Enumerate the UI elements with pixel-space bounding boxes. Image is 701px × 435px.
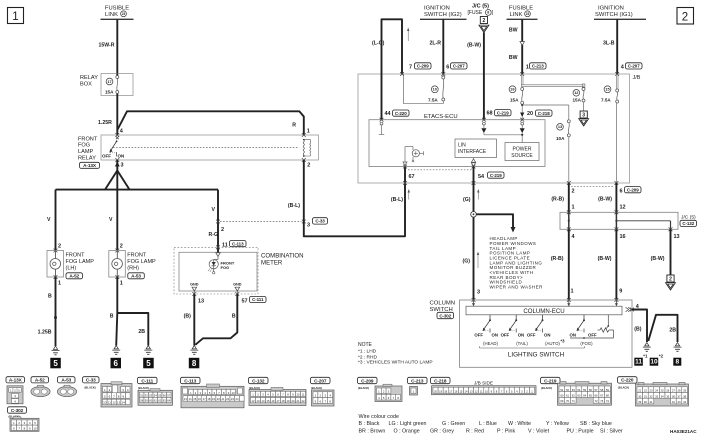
J/B pin 7 C-209 bbox=[400, 63, 431, 76]
J/B pin 4 C-207 bbox=[615, 63, 642, 76]
svg-text:Y : Yellow: Y : Yellow bbox=[546, 421, 569, 427]
svg-text:R : Red: R : Red bbox=[466, 428, 484, 434]
svg-text:32: 32 bbox=[649, 394, 653, 398]
fuse 13 (10A) in J/B bbox=[556, 120, 570, 183]
svg-text:43: 43 bbox=[677, 400, 681, 404]
connector C-33 dashed line bbox=[220, 221, 302, 223]
svg-text:(TAIL): (TAIL) bbox=[516, 341, 528, 346]
front fog indicator LED in meter bbox=[208, 260, 235, 274]
svg-text:51: 51 bbox=[140, 394, 143, 398]
svg-text:23: 23 bbox=[526, 12, 530, 16]
svg-text:RELAY: RELAY bbox=[78, 156, 96, 162]
svg-text:LINK: LINK bbox=[510, 12, 523, 18]
svg-text:C-209: C-209 bbox=[627, 187, 639, 192]
svg-text:GND: GND bbox=[233, 282, 242, 286]
svg-text:73: 73 bbox=[600, 399, 604, 403]
svg-text:22: 22 bbox=[226, 397, 229, 401]
svg-text:6: 6 bbox=[114, 359, 119, 368]
svg-text:10: 10 bbox=[33, 426, 37, 430]
svg-text:WIPER AND WASHER: WIPER AND WASHER bbox=[490, 284, 544, 289]
fuse 26 (15A) in J/B bbox=[509, 86, 524, 104]
svg-text:21: 21 bbox=[221, 397, 224, 401]
lighting switch pole (AUTO) bbox=[527, 315, 565, 346]
svg-text:NOTE: NOTE bbox=[358, 342, 373, 348]
svg-text:37: 37 bbox=[677, 394, 681, 398]
svg-text:18: 18 bbox=[282, 399, 285, 403]
connector detail C-302 bbox=[8, 407, 40, 432]
svg-text:3: 3 bbox=[582, 112, 585, 118]
svg-text:1: 1 bbox=[307, 129, 310, 135]
ignition switch (IG1) feed bbox=[594, 6, 646, 20]
svg-text:6: 6 bbox=[620, 189, 623, 195]
svg-text:22: 22 bbox=[644, 389, 648, 393]
svg-text:C-207: C-207 bbox=[628, 64, 640, 69]
svg-text:A-53: A-53 bbox=[131, 273, 141, 278]
fusible link 23 (right feed) bbox=[507, 6, 538, 20]
connector detail C-207 bbox=[311, 377, 335, 406]
svg-text:70: 70 bbox=[566, 399, 570, 403]
svg-text:V: V bbox=[109, 217, 113, 223]
svg-text:B : Black: B : Black bbox=[359, 421, 380, 427]
ground reference square 8 (right) bbox=[673, 358, 681, 366]
meter GND pin 13 bbox=[190, 282, 204, 304]
wire B-L from relay pin 2 to ETACS-ECU pin 67 bbox=[288, 160, 410, 236]
svg-text:33: 33 bbox=[655, 394, 659, 398]
svg-text:C-209: C-209 bbox=[361, 378, 374, 383]
ground reference square 11 (*1) bbox=[634, 354, 648, 366]
svg-text:9: 9 bbox=[619, 289, 622, 295]
svg-text:C-132: C-132 bbox=[252, 378, 265, 383]
connector detail A-53 bbox=[57, 377, 76, 397]
connector dashed line pins 67-54 bbox=[408, 169, 472, 171]
fog switch sense resistor bbox=[570, 315, 614, 339]
svg-text:57: 57 bbox=[167, 394, 170, 398]
joint connector J/C(5) C-132 box bbox=[560, 212, 697, 229]
svg-text:10: 10 bbox=[485, 389, 488, 393]
svg-text:R: R bbox=[292, 123, 296, 129]
ground reference square 5 bbox=[50, 358, 61, 369]
svg-text:2: 2 bbox=[682, 12, 688, 24]
relay box (fuse 17, 15A) bbox=[80, 74, 133, 96]
wire R-G from C-33 pin 2 to combination meter pin 11 bbox=[208, 232, 246, 248]
svg-text:1.25R: 1.25R bbox=[98, 120, 112, 126]
meter GND pin 57 bbox=[233, 282, 266, 304]
svg-text:SWITCH (IG1): SWITCH (IG1) bbox=[595, 12, 633, 18]
svg-text:C-132: C-132 bbox=[682, 221, 694, 226]
svg-text:C-33: C-33 bbox=[315, 219, 325, 224]
wire (B-W) from J/C(5) to column switch pin 9 bbox=[598, 229, 623, 302]
svg-text:GND: GND bbox=[190, 282, 199, 286]
svg-text:FOG LAMP: FOG LAMP bbox=[66, 259, 95, 265]
wire 15W-R from fusible link 23 to relay box bbox=[99, 19, 118, 73]
wire (B-W) branch to off-page ref 2 bbox=[651, 229, 676, 290]
fuse 17 15A in relay box bbox=[105, 76, 119, 95]
fuse 15 (7.5A) in J/B bbox=[601, 74, 619, 183]
svg-text:18: 18 bbox=[207, 397, 210, 401]
svg-text:SB : Sky blue: SB : Sky blue bbox=[580, 421, 612, 427]
svg-text:15: 15 bbox=[193, 397, 196, 401]
svg-text:(HEAD): (HEAD) bbox=[483, 341, 498, 346]
wire (R-B) from fuse 13 to J/C(5) bbox=[551, 183, 574, 212]
svg-text:FRONT: FRONT bbox=[66, 253, 86, 259]
connector detail A-13X bbox=[6, 377, 25, 404]
svg-text:20: 20 bbox=[434, 389, 437, 393]
svg-text:57: 57 bbox=[595, 388, 599, 392]
svg-text:63: 63 bbox=[163, 399, 166, 403]
svg-text:29: 29 bbox=[683, 389, 687, 393]
svg-text:(G): (G) bbox=[463, 259, 471, 265]
svg-text:(G): (G) bbox=[463, 197, 471, 203]
svg-text:19: 19 bbox=[287, 399, 290, 403]
svg-text:23: 23 bbox=[649, 389, 653, 393]
svg-text:A-13X: A-13X bbox=[83, 163, 97, 168]
ETACS pin 67 bbox=[403, 165, 415, 180]
ground (body earth) for LH lamp bbox=[52, 346, 60, 355]
svg-text:(LH): (LH) bbox=[66, 265, 77, 271]
svg-text:52: 52 bbox=[145, 394, 148, 398]
svg-text:ON: ON bbox=[544, 333, 550, 338]
svg-text:C-219: C-219 bbox=[497, 110, 509, 115]
svg-text:58: 58 bbox=[600, 388, 604, 392]
svg-text:O : Orange: O : Orange bbox=[394, 428, 420, 434]
svg-text:54: 54 bbox=[478, 174, 485, 180]
svg-text:59: 59 bbox=[145, 399, 148, 403]
connector detail C-33 bbox=[83, 377, 133, 407]
svg-text:5: 5 bbox=[53, 359, 58, 368]
svg-text:1: 1 bbox=[58, 281, 61, 287]
svg-text:LINK: LINK bbox=[105, 12, 118, 18]
shared-signal load list bbox=[490, 236, 544, 289]
svg-text:13: 13 bbox=[198, 298, 204, 304]
svg-text:C-113: C-113 bbox=[184, 378, 197, 383]
svg-text:IGNITION: IGNITION bbox=[598, 6, 624, 12]
svg-text:15: 15 bbox=[605, 88, 609, 92]
svg-text:L : Blue: L : Blue bbox=[479, 421, 497, 427]
svg-text:2B: 2B bbox=[138, 329, 145, 335]
lighting switch bracket and label bbox=[480, 346, 585, 358]
J/B pin 1 C-213 bbox=[520, 63, 546, 76]
fusible link 23 (left feed) bbox=[101, 6, 134, 20]
svg-text:14: 14 bbox=[189, 397, 192, 401]
relay pin 1 bbox=[302, 129, 310, 137]
svg-text:12: 12 bbox=[475, 389, 478, 393]
svg-text:GR : Grey: GR : Grey bbox=[430, 428, 454, 434]
svg-text:ON: ON bbox=[518, 333, 524, 338]
svg-text:1.25B: 1.25B bbox=[38, 330, 52, 336]
svg-text:R-G: R-G bbox=[208, 232, 218, 238]
relay coil bbox=[303, 139, 311, 157]
svg-text:2: 2 bbox=[307, 163, 310, 169]
svg-text:12: 12 bbox=[574, 91, 578, 95]
svg-text:65: 65 bbox=[589, 394, 593, 398]
svg-text:39: 39 bbox=[638, 400, 642, 404]
svg-text:72: 72 bbox=[595, 399, 599, 403]
ground (body earth) for column switch bbox=[643, 343, 651, 352]
svg-text:62: 62 bbox=[158, 399, 161, 403]
svg-text:*3: *3 bbox=[561, 339, 566, 344]
svg-text:ON: ON bbox=[570, 333, 576, 338]
svg-text:(B-W): (B-W) bbox=[467, 43, 481, 49]
ETACS pin 54 C-219 bbox=[472, 165, 504, 180]
svg-text:20: 20 bbox=[217, 397, 220, 401]
svg-text:10A: 10A bbox=[556, 136, 565, 141]
svg-text:18: 18 bbox=[444, 389, 447, 393]
svg-text:BW: BW bbox=[509, 55, 518, 61]
svg-text:67: 67 bbox=[409, 174, 415, 180]
svg-text:14: 14 bbox=[122, 401, 126, 405]
svg-text:61: 61 bbox=[566, 394, 570, 398]
svg-text:LAMP: LAMP bbox=[78, 149, 94, 155]
svg-text:56: 56 bbox=[589, 388, 593, 392]
svg-text:C-213: C-213 bbox=[411, 378, 424, 383]
svg-text:63: 63 bbox=[577, 394, 581, 398]
svg-text:2B: 2B bbox=[669, 328, 676, 334]
svg-text:13: 13 bbox=[184, 397, 187, 401]
svg-text:B: B bbox=[110, 314, 114, 320]
ETACS-ECU box bbox=[369, 114, 545, 167]
connector detail C-209 bbox=[358, 377, 403, 401]
svg-text:FUSIBLE: FUSIBLE bbox=[509, 6, 533, 12]
wire 1.25R from fuse 17 to relay pin 4 bbox=[98, 96, 117, 136]
svg-text:2: 2 bbox=[221, 227, 224, 233]
svg-text:(B-W): (B-W) bbox=[598, 197, 612, 203]
svg-text:C-220: C-220 bbox=[395, 111, 407, 116]
svg-text:A-52: A-52 bbox=[35, 378, 45, 383]
svg-text:10: 10 bbox=[297, 393, 300, 397]
svg-text:(FOG): (FOG) bbox=[580, 341, 593, 346]
ground reference square 10 (*2) bbox=[650, 354, 664, 366]
svg-text:FUSIBLE: FUSIBLE bbox=[105, 6, 129, 12]
connector detail C-219 bbox=[541, 377, 612, 405]
svg-text:23: 23 bbox=[231, 397, 234, 401]
svg-text:(BLACK): (BLACK) bbox=[138, 386, 149, 390]
wire B from RH lamp splitting to grounds bbox=[110, 277, 149, 346]
LIN INTERFACE block bbox=[455, 139, 497, 158]
svg-text:44: 44 bbox=[683, 400, 687, 404]
svg-text:11: 11 bbox=[480, 389, 483, 393]
svg-text:A-53: A-53 bbox=[61, 378, 71, 383]
ETACS pin 68 C-219 bbox=[481, 110, 511, 135]
svg-text:17: 17 bbox=[449, 389, 452, 393]
svg-text:51: 51 bbox=[560, 388, 564, 392]
svg-text:55: 55 bbox=[583, 388, 587, 392]
svg-text:2: 2 bbox=[572, 189, 575, 195]
wire (B-W) from fuse 15 to J/C(5) bbox=[598, 183, 625, 212]
svg-text:(BLACK): (BLACK) bbox=[618, 386, 629, 390]
wire 2L-R from IG2 to J/B pin 6 bbox=[429, 19, 443, 74]
svg-text:19: 19 bbox=[212, 397, 215, 401]
svg-text:COLUMN: COLUMN bbox=[430, 301, 456, 307]
off-page ref J/C(5) FUSE 8 bbox=[468, 3, 494, 32]
svg-text:LIGHTING SWITCH: LIGHTING SWITCH bbox=[508, 352, 565, 359]
svg-text:6: 6 bbox=[446, 65, 449, 71]
J/B branch to fuse 13 bbox=[522, 105, 569, 120]
svg-text:52: 52 bbox=[566, 388, 570, 392]
fuse 10 (7.5A) in J/B bbox=[428, 74, 445, 102]
svg-text:69: 69 bbox=[560, 399, 564, 403]
svg-text:53: 53 bbox=[572, 388, 576, 392]
svg-text:10: 10 bbox=[650, 359, 658, 366]
svg-text:C-33: C-33 bbox=[86, 378, 96, 383]
svg-text:(BLACK): (BLACK) bbox=[85, 386, 96, 390]
svg-text:J/C (5): J/C (5) bbox=[472, 3, 489, 9]
svg-text:V: V bbox=[212, 207, 216, 213]
svg-text:(R-B): (R-B) bbox=[551, 256, 564, 262]
svg-text:57: 57 bbox=[242, 298, 248, 304]
connector detail C-113 bbox=[181, 377, 245, 408]
svg-text:7.5A: 7.5A bbox=[428, 97, 438, 102]
svg-text:13: 13 bbox=[674, 234, 680, 240]
sheet reference box 1 bbox=[8, 8, 24, 24]
POWER SOURCE block bbox=[505, 143, 539, 161]
svg-text:HA03E21AC: HA03E21AC bbox=[670, 429, 697, 434]
svg-text:(BLACK): (BLACK) bbox=[358, 386, 369, 390]
svg-text:INTERFACE: INTERFACE bbox=[458, 149, 487, 155]
svg-text:16: 16 bbox=[198, 397, 201, 401]
svg-text:V: V bbox=[47, 217, 51, 223]
fuse 12 (15A) in J/B bbox=[573, 86, 586, 103]
wire (B-W) from J/C(5) to ETACS pin 68 bbox=[467, 33, 484, 120]
svg-text:36: 36 bbox=[672, 394, 676, 398]
svg-text:ETACS-ECU: ETACS-ECU bbox=[424, 114, 458, 120]
J/B pin 6 C-207 bbox=[441, 63, 467, 76]
wire (L-O) from ETACS pin 44 loop to J/B C-209 pin 7 bbox=[372, 19, 409, 119]
svg-text:41: 41 bbox=[649, 400, 653, 404]
svg-text:BR : Brown: BR : Brown bbox=[359, 428, 386, 434]
svg-text:56: 56 bbox=[163, 394, 166, 398]
svg-text:METER: METER bbox=[261, 259, 283, 266]
svg-text:(B-L): (B-L) bbox=[391, 197, 403, 203]
ground (body earth) 2B bbox=[144, 346, 152, 355]
connector detail C-213 bbox=[408, 377, 428, 395]
svg-text:19: 19 bbox=[439, 389, 442, 393]
svg-text:W : White: W : White bbox=[508, 421, 531, 427]
svg-text:BOX: BOX bbox=[80, 82, 92, 88]
wire V fan-out from relay pin 3 bbox=[47, 160, 218, 251]
note block bbox=[358, 342, 433, 365]
svg-text:15A: 15A bbox=[105, 90, 114, 95]
wire (G) from ETACS pin 54 to column switch pin 3 bbox=[463, 167, 481, 302]
ground reference square 6 bbox=[111, 358, 122, 369]
svg-text:3: 3 bbox=[307, 223, 310, 229]
ground (body earth) for RH lamp bbox=[112, 346, 120, 355]
svg-text:66: 66 bbox=[595, 394, 599, 398]
svg-text:35: 35 bbox=[666, 394, 670, 398]
diagram code bbox=[670, 429, 697, 434]
svg-text:60: 60 bbox=[149, 399, 152, 403]
svg-text:10: 10 bbox=[103, 401, 107, 405]
svg-text:RELAY: RELAY bbox=[80, 75, 98, 81]
svg-text:(BLACK): (BLACK) bbox=[311, 386, 322, 390]
svg-text:7: 7 bbox=[409, 65, 412, 71]
wire colour code legend bbox=[359, 414, 623, 435]
front fog lamp relay A-13X body bbox=[78, 135, 319, 168]
ground (body earth) for meter bbox=[190, 346, 198, 355]
svg-text:38: 38 bbox=[683, 394, 687, 398]
svg-text:LG : Light green: LG : Light green bbox=[389, 421, 427, 427]
connector detail A-52 bbox=[31, 377, 50, 397]
svg-text:C-219: C-219 bbox=[544, 378, 557, 383]
svg-text:17: 17 bbox=[107, 80, 111, 84]
svg-text:12: 12 bbox=[112, 401, 116, 405]
svg-text:FOG: FOG bbox=[221, 265, 230, 270]
svg-text:16: 16 bbox=[620, 234, 626, 240]
svg-text:61: 61 bbox=[154, 399, 157, 403]
svg-text:26: 26 bbox=[510, 88, 514, 92]
svg-text:ON: ON bbox=[492, 333, 498, 338]
svg-text:28: 28 bbox=[677, 389, 681, 393]
svg-text:8: 8 bbox=[487, 11, 489, 15]
sheet reference box 2 bbox=[677, 8, 694, 25]
svg-text:5: 5 bbox=[146, 359, 151, 368]
svg-text:(B): (B) bbox=[634, 327, 641, 333]
lighting switch pole (HEAD) bbox=[474, 315, 498, 346]
svg-text:10: 10 bbox=[232, 391, 235, 395]
svg-text:20: 20 bbox=[527, 111, 533, 117]
column switch pin 4 output bbox=[626, 304, 640, 312]
svg-text:2L-R: 2L-R bbox=[429, 41, 441, 47]
svg-text:C-209: C-209 bbox=[417, 64, 429, 69]
svg-text:(AUTO): (AUTO) bbox=[545, 341, 560, 346]
svg-text:15W-R: 15W-R bbox=[99, 43, 115, 49]
svg-text:64: 64 bbox=[583, 394, 587, 398]
connector detail C-218 (J/B side) bbox=[431, 377, 537, 394]
svg-text:8: 8 bbox=[675, 359, 679, 366]
svg-text:J/C (5): J/C (5) bbox=[681, 214, 696, 220]
svg-text:27: 27 bbox=[672, 389, 676, 393]
svg-text:G : Green: G : Green bbox=[442, 421, 465, 427]
connector detail C-132 bbox=[249, 377, 307, 405]
svg-text:1: 1 bbox=[526, 65, 529, 71]
svg-text:30: 30 bbox=[638, 394, 642, 398]
svg-text:V : Violet: V : Violet bbox=[528, 428, 550, 434]
svg-text:C-111: C-111 bbox=[141, 378, 153, 383]
svg-text:54: 54 bbox=[577, 388, 581, 392]
svg-text:17: 17 bbox=[277, 399, 280, 403]
svg-text:68: 68 bbox=[487, 111, 493, 117]
svg-text:C-218: C-218 bbox=[434, 378, 447, 383]
svg-text:15A: 15A bbox=[573, 98, 582, 103]
svg-text:21: 21 bbox=[297, 399, 300, 403]
svg-text:3: 3 bbox=[121, 163, 124, 169]
connector C-33 pin 3 and label bbox=[302, 218, 328, 229]
wire 3L-B from IG1 to J/B pin 4 C-207 bbox=[603, 19, 617, 74]
wire 2B ground branch bbox=[648, 315, 677, 342]
svg-text:2: 2 bbox=[58, 244, 61, 250]
svg-text:15: 15 bbox=[267, 399, 270, 403]
svg-text:59: 59 bbox=[606, 388, 610, 392]
svg-text:A-13X: A-13X bbox=[9, 378, 23, 383]
connector C-33 pin 2 (in-line) bbox=[216, 220, 224, 233]
svg-text:16: 16 bbox=[272, 399, 275, 403]
svg-text:22: 22 bbox=[302, 399, 305, 403]
wire B from meter pin 57 joining ground 8 bbox=[195, 294, 237, 345]
svg-text:44: 44 bbox=[385, 111, 392, 117]
svg-text:IGNITION: IGNITION bbox=[424, 6, 450, 12]
svg-text:C-113: C-113 bbox=[232, 241, 244, 246]
svg-text:11: 11 bbox=[108, 401, 111, 405]
svg-text:2: 2 bbox=[120, 244, 123, 250]
lighting switch pole (FOG) bbox=[570, 315, 597, 346]
svg-text:C-220: C-220 bbox=[621, 378, 634, 383]
svg-text:1: 1 bbox=[120, 281, 123, 287]
wire B from meter pin 13 to ground 8 bbox=[184, 294, 195, 346]
svg-text:74: 74 bbox=[606, 399, 610, 403]
front fog lamp LH A-52 bbox=[47, 244, 94, 287]
svg-text:1: 1 bbox=[572, 205, 575, 211]
svg-text:54: 54 bbox=[154, 394, 157, 398]
wire R-G entry into combination meter bbox=[214, 245, 221, 259]
